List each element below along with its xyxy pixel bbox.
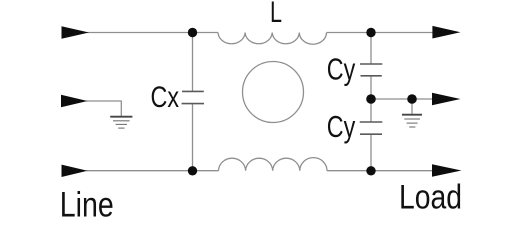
- svg-text:Cy: Cy: [327, 51, 356, 86]
- svg-text:Load: Load: [399, 178, 462, 216]
- svg-text:Line: Line: [60, 186, 114, 225]
- svg-text:L: L: [270, 0, 282, 29]
- svg-text:Cx: Cx: [151, 81, 180, 114]
- svg-text:Cy: Cy: [327, 109, 356, 144]
